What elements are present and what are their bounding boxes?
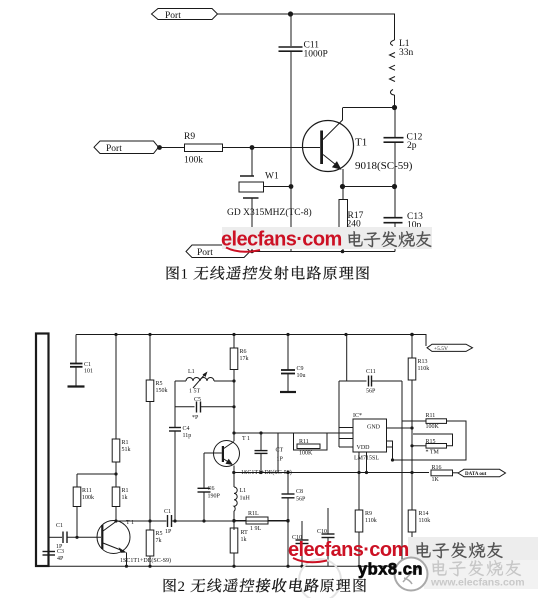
svg-text:1: 1 xyxy=(181,267,189,283)
svg-text:Port: Port xyxy=(106,144,122,154)
transistor T1 xyxy=(303,108,354,187)
svg-text:IC*: IC* xyxy=(353,413,362,419)
wire ground drop column xyxy=(401,381,403,566)
node junction ground/W1 xyxy=(250,250,254,254)
capacitor C7 1P xyxy=(255,433,268,473)
svg-text:100K: 100K xyxy=(426,424,440,430)
svg-text:R1: R1 xyxy=(122,440,129,446)
svg-text:100k: 100k xyxy=(184,156,203,166)
wire IC input column xyxy=(339,381,353,447)
resistor RT 1k xyxy=(230,528,238,566)
svg-text:L1: L1 xyxy=(240,488,247,494)
capacitor C3 4P xyxy=(43,537,56,566)
transistor Q1 xyxy=(97,521,130,567)
caption figure 2 xyxy=(164,578,366,595)
watermark band TX xyxy=(222,227,432,249)
resistor R15 xyxy=(412,434,453,448)
svg-text:RT: RT xyxy=(241,530,249,536)
svg-text:C11: C11 xyxy=(366,369,376,375)
node junction R1L right xyxy=(286,519,289,522)
svg-text:2p: 2p xyxy=(407,141,417,151)
capacitor C1 101 xyxy=(70,335,83,387)
resistor R5 7k xyxy=(146,521,154,566)
resistor R9 110k column xyxy=(355,473,363,566)
watermark chinese light RX xyxy=(432,560,521,576)
node junctions data rail xyxy=(232,471,413,474)
svg-text:R5: R5 xyxy=(156,381,163,387)
svg-text:W1: W1 xyxy=(265,172,279,182)
wire IC vdd pin xyxy=(387,441,393,460)
capacitor C10 b xyxy=(322,508,335,566)
svg-text:CT: CT xyxy=(276,448,284,454)
node junction bias xyxy=(114,472,117,475)
svg-text:R6: R6 xyxy=(240,349,247,355)
node junction CT top xyxy=(259,431,262,434)
svg-text:R1L: R1L xyxy=(248,511,259,517)
wire emitter rail xyxy=(343,186,395,188)
node junction L1/C12 xyxy=(392,105,397,110)
svg-text:1 5T: 1 5T xyxy=(189,389,201,395)
svg-text:R14: R14 xyxy=(419,511,429,517)
svg-text:T 1: T 1 xyxy=(126,520,134,526)
node junction C11/top xyxy=(288,11,293,16)
svg-text:C1: C1 xyxy=(56,523,63,529)
port flag Port (top input) xyxy=(152,9,218,20)
svg-text:R11: R11 xyxy=(299,439,309,445)
wire C11 drop xyxy=(290,14,292,46)
node junction y521/C10a xyxy=(286,519,289,522)
svg-text:LM715SL: LM715SL xyxy=(354,456,379,462)
svg-text:1P: 1P xyxy=(165,529,172,535)
node junction vdd loop xyxy=(391,458,394,461)
watermark logo nib xyxy=(403,568,419,584)
resistor R5 150k column xyxy=(146,335,154,522)
svg-text:R9: R9 xyxy=(365,511,372,517)
resistor R11 100K out xyxy=(393,419,467,460)
capacitor C1 1P input xyxy=(49,531,102,544)
svg-text:C1: C1 xyxy=(84,362,91,368)
svg-text:R5: R5 xyxy=(156,531,163,537)
resistor R1L xyxy=(234,517,288,524)
resistor R9 xyxy=(185,144,223,152)
capacitor C6 190P xyxy=(198,453,211,521)
svg-text:1 9L: 1 9L xyxy=(250,526,262,532)
svg-text:1P: 1P xyxy=(277,457,284,463)
node junction port2 xyxy=(157,145,162,150)
wire ground rail RX xyxy=(40,565,413,567)
node junction R15 left xyxy=(410,444,413,447)
svg-text:7k: 7k xyxy=(156,538,162,544)
svg-text:elecfans·com: elecfans·com xyxy=(288,539,409,561)
ground bar C1 xyxy=(68,385,85,387)
node junction R1L left xyxy=(232,519,235,522)
wire top rail TX xyxy=(218,13,396,15)
svg-text:1000P: 1000P xyxy=(304,50,328,60)
resistor R1 51k column xyxy=(112,335,120,475)
ground bar C9 xyxy=(280,391,296,393)
port flag DATA out xyxy=(458,469,506,477)
svg-text:GND: GND xyxy=(367,425,381,431)
svg-text:elecfans·com: elecfans·com xyxy=(221,229,342,251)
capacitor C10 a xyxy=(296,521,309,566)
svg-text:2: 2 xyxy=(178,579,186,595)
capacitor C5 tank xyxy=(175,402,234,413)
svg-text:T 1: T 1 xyxy=(242,436,250,442)
watermark band RX lower xyxy=(424,560,538,589)
svg-text:11p: 11p xyxy=(183,433,192,439)
svg-text:100k: 100k xyxy=(82,495,94,501)
svg-text:1K: 1K xyxy=(432,477,440,483)
resistor R17 xyxy=(339,187,348,252)
svg-text:4P: 4P xyxy=(57,556,64,562)
wire IC bottom pins xyxy=(359,452,367,473)
capacitor C9 10u xyxy=(281,335,295,392)
svg-text:51k: 51k xyxy=(122,447,131,453)
wire bias junction xyxy=(77,473,116,475)
wire tank left rail lower xyxy=(174,431,176,521)
svg-text:1k: 1k xyxy=(241,537,247,543)
RX-SECTION xyxy=(36,333,506,568)
svg-text:R15: R15 xyxy=(426,439,436,445)
resistor R6 17k column xyxy=(230,335,238,442)
capacitor C1 1P coupling xyxy=(168,515,172,527)
svg-text:R16: R16 xyxy=(432,465,442,471)
wire interstage y521 part2 xyxy=(172,520,289,522)
wire Q2 base stub xyxy=(204,452,222,454)
wire C11 to base rail xyxy=(290,51,292,186)
wire R9 to base xyxy=(223,147,321,149)
resistor R1 1k xyxy=(112,474,120,521)
capacitor C11 xyxy=(279,47,303,51)
svg-text:33n: 33n xyxy=(399,48,414,58)
svg-text:L1: L1 xyxy=(188,369,195,375)
svg-text:+5.5V: +5.5V xyxy=(434,346,448,352)
svg-text:C1: C1 xyxy=(164,509,171,515)
svg-text:1k: 1k xyxy=(122,495,128,501)
wire Q2 to IC input xyxy=(234,432,339,434)
wire VCC rail RX xyxy=(76,335,426,347)
capacitor C13 xyxy=(384,187,403,252)
watermark chinese gray RX xyxy=(416,542,502,558)
caption figure 1 xyxy=(167,266,369,283)
node junction emitter xyxy=(340,184,345,189)
svg-text:17k: 17k xyxy=(240,356,249,362)
svg-text:9018(SC-59): 9018(SC-59) xyxy=(355,160,413,172)
watermark red swoosh RX xyxy=(293,558,327,562)
antenna xyxy=(36,334,49,567)
node junction R13/IC xyxy=(410,426,413,429)
node junction C12/C13 xyxy=(392,184,397,189)
watermark logo circle xyxy=(395,558,428,591)
node junction tank bottom right xyxy=(232,405,235,408)
svg-text:R1: R1 xyxy=(122,488,129,494)
svg-text:110k: 110k xyxy=(365,518,377,524)
svg-text:C4: C4 xyxy=(183,426,190,432)
svg-text:1SC1T1+DE(SC-S9): 1SC1T1+DE(SC-S9) xyxy=(120,557,171,564)
wire port2 to R9 xyxy=(158,147,184,149)
capacitor C12 xyxy=(384,108,404,187)
svg-text:C8: C8 xyxy=(296,489,303,495)
resistor R13 110k column xyxy=(408,335,416,474)
node junction collector/ic wire xyxy=(232,431,235,434)
wire ground rail TX xyxy=(250,251,395,253)
svg-text:R13: R13 xyxy=(418,359,428,365)
wire data rail xyxy=(234,472,429,474)
node junction base Q1 xyxy=(75,536,78,539)
svg-text:C6: C6 xyxy=(208,486,215,492)
svg-text:C5: C5 xyxy=(194,397,201,403)
svg-text:* TM: * TM xyxy=(426,450,440,456)
svg-text:ybx8.cn: ybx8.cn xyxy=(358,561,423,579)
inductor L1 xyxy=(390,14,396,108)
svg-text:GD X315MHZ(TC-8): GD X315MHZ(TC-8) xyxy=(227,207,312,218)
wire IC gnd pin xyxy=(387,427,413,429)
resistor R12 100K boxed xyxy=(294,433,328,450)
inductor L2 1uH xyxy=(234,473,237,531)
svg-text:101: 101 xyxy=(84,369,93,375)
wire tank left rail xyxy=(174,381,176,427)
svg-text:www.elecfans.com: www.elecfans.com xyxy=(430,577,525,589)
svg-text:C3: C3 xyxy=(57,549,64,555)
capacitor C11 56P column xyxy=(339,335,402,387)
svg-text:VDD: VDD xyxy=(357,445,371,451)
transistor Q2 xyxy=(214,441,240,473)
IC U1 body xyxy=(353,419,387,452)
wire feedback box left edge xyxy=(277,433,279,473)
svg-text:100K: 100K xyxy=(299,451,313,457)
svg-text:C9: C9 xyxy=(297,366,304,372)
port flag Port (bottom) xyxy=(186,245,250,258)
watermark faint circle bottom xyxy=(299,559,341,598)
node junctions on y521 xyxy=(148,519,235,522)
resistor R16 1K xyxy=(431,470,458,476)
resistor R11 100k xyxy=(73,474,81,537)
svg-text:*P: *P xyxy=(192,415,199,421)
wire W1 top lead xyxy=(251,148,253,177)
watermark red swoosh TX xyxy=(226,248,260,252)
wire C11 line to ground rail xyxy=(290,187,292,252)
port flag Port (left input) xyxy=(94,141,159,154)
svg-text:190P: 190P xyxy=(208,494,221,500)
svg-text:56P: 56P xyxy=(296,497,306,503)
power flag +5.5V xyxy=(427,344,473,351)
watermark chinese gray TX xyxy=(348,231,431,247)
wire interstage y521 xyxy=(116,520,167,522)
wire collector rail xyxy=(343,107,395,109)
svg-text:R11: R11 xyxy=(426,413,436,419)
capacitor C4 11p xyxy=(169,428,181,432)
crystal W1 xyxy=(239,176,291,252)
node junction R9/W1 xyxy=(250,145,255,150)
svg-text:10u: 10u xyxy=(297,373,306,379)
svg-text:Port: Port xyxy=(165,11,181,21)
svg-text:T1: T1 xyxy=(355,137,367,149)
node junctions ground rail RX xyxy=(125,565,304,568)
svg-text:110k: 110k xyxy=(419,518,431,524)
node junction tank top right xyxy=(232,379,235,382)
node junction W1/C11 xyxy=(289,184,294,189)
svg-text:C10: C10 xyxy=(317,529,327,535)
watermark band RX right xyxy=(408,537,538,562)
svg-text:1uH: 1uH xyxy=(240,496,251,502)
svg-text:110k: 110k xyxy=(418,366,430,372)
node junction Q1 collector xyxy=(114,519,117,522)
resistor R14 110k column xyxy=(408,473,416,566)
capacitor C8 56P xyxy=(282,473,295,567)
node junctions on VCC rail xyxy=(114,333,413,337)
svg-text:Port: Port xyxy=(197,248,213,258)
svg-text:R11: R11 xyxy=(82,488,92,494)
svg-text:1SC1T1+DE(SC-59): 1SC1T1+DE(SC-59) xyxy=(241,469,292,476)
svg-text:150k: 150k xyxy=(156,388,168,394)
inductor L1 tank xyxy=(175,372,234,389)
svg-text:R9: R9 xyxy=(184,132,195,142)
node junction ground/R17 xyxy=(341,250,345,254)
svg-text:DATA out: DATA out xyxy=(465,472,487,477)
svg-text:56P: 56P xyxy=(366,389,376,395)
